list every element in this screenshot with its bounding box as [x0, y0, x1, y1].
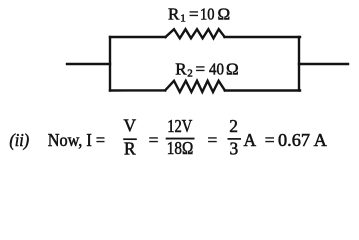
wire left lead [67, 63, 110, 65]
svg-text:1: 1 [180, 12, 186, 24]
svg-text:Ω: Ω [218, 5, 231, 24]
svg-text:(ii): (ii) [9, 130, 29, 150]
svg-text:A: A [244, 130, 257, 150]
wire bottom-left segment [110, 89, 165, 91]
wire top-right segment [225, 36, 301, 38]
svg-text:=: = [196, 60, 206, 79]
svg-text:0.67 A: 0.67 A [278, 130, 327, 150]
svg-text:R: R [168, 5, 180, 24]
svg-text:=: = [265, 130, 275, 150]
svg-text:R: R [124, 139, 136, 159]
fraction 2/3 bar [228, 138, 242, 140]
svg-text:12V: 12V [167, 116, 192, 136]
label R1 = 10 ohm [168, 5, 230, 25]
fraction V/R bar [123, 138, 137, 140]
svg-text:R: R [175, 60, 187, 79]
label R2 = 40 ohm [175, 60, 238, 80]
svg-text:3: 3 [230, 138, 239, 158]
resistor R1 [166, 29, 225, 38]
svg-text:40: 40 [209, 60, 224, 79]
svg-text:Now, I =: Now, I = [48, 130, 105, 150]
svg-text:=: = [208, 130, 218, 150]
wire right lead [299, 63, 348, 65]
formula line [9, 116, 327, 159]
wire bottom-right segment [225, 89, 300, 91]
wire top-left segment [110, 36, 166, 38]
svg-text:=: = [149, 130, 159, 150]
fraction 12V/18ohm bar [166, 138, 195, 140]
svg-text:Ω: Ω [226, 60, 239, 79]
svg-text:18Ω: 18Ω [167, 138, 194, 158]
svg-text:=: = [189, 5, 199, 24]
svg-text:10: 10 [200, 5, 215, 24]
svg-text:2: 2 [229, 116, 238, 136]
resistor R2 [165, 81, 225, 92]
wire right vertical [298, 37, 300, 91]
svg-text:V: V [124, 116, 137, 136]
wire left vertical [109, 37, 111, 91]
svg-text:2: 2 [187, 67, 193, 79]
